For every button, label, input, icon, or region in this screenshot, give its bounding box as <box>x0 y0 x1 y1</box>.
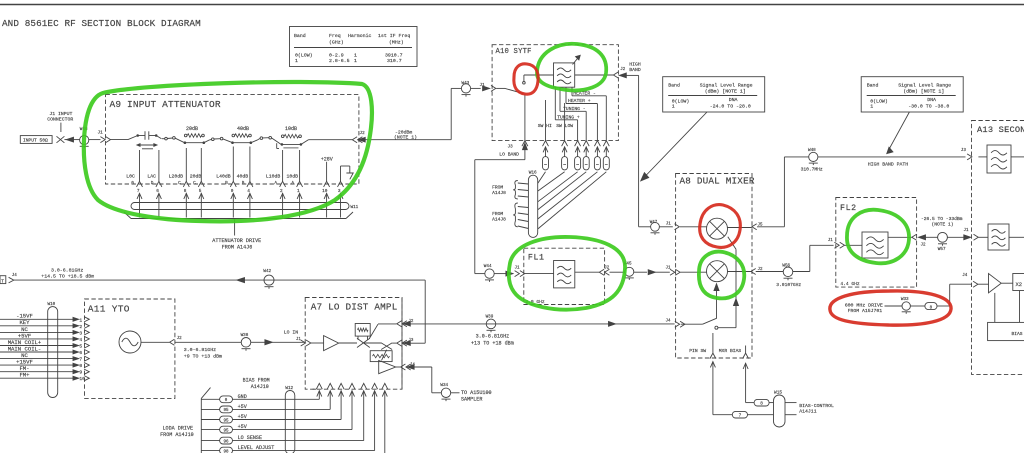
LODA drive label <box>160 426 194 439</box>
LO output label <box>41 267 94 279</box>
wire W57 to A13 J1 <box>947 229 970 240</box>
from A14J8 wires (lower) <box>518 207 529 229</box>
M2 LO feed <box>714 284 719 318</box>
IF freq label 3.9107GHz <box>776 282 801 288</box>
YIG tuning arrow <box>573 55 581 64</box>
A13 high band filter <box>978 145 1024 173</box>
A9 10dB actuator <box>277 143 299 148</box>
A9 40dB pad <box>231 126 252 144</box>
A9 port J1 <box>98 131 111 143</box>
svg-text:J4: J4 <box>962 274 968 278</box>
svg-text:A14J8: A14J8 <box>492 190 506 196</box>
A9 control labels <box>126 173 298 179</box>
svg-text:J1: J1 <box>964 229 970 233</box>
connector mate X <box>57 136 65 143</box>
svg-text:1: 1 <box>79 317 82 323</box>
FL1 block box <box>524 248 605 304</box>
svg-text:J2: J2 <box>360 131 366 136</box>
svg-text:1: 1 <box>354 58 357 64</box>
MXR BIAS drive wire <box>743 363 754 402</box>
svg-text:HIGH: HIGH <box>629 62 641 68</box>
cable W38 <box>241 333 251 351</box>
svg-text:FM+: FM+ <box>19 372 30 379</box>
FL2 title <box>840 204 857 213</box>
cable W39 <box>486 314 496 332</box>
wire YTO to J2 <box>141 341 169 343</box>
svg-text:0(LOW): 0(LOW) <box>295 53 313 59</box>
svg-text:6: 6 <box>79 350 82 356</box>
svg-text:J3: J3 <box>508 145 514 150</box>
svg-text:Band: Band <box>668 83 680 89</box>
svg-text:A: A <box>274 181 277 186</box>
A8 title <box>680 176 755 187</box>
svg-text:20dB: 20dB <box>186 126 198 132</box>
wire input to W46 <box>64 137 79 142</box>
wire W33 to pin <box>910 305 925 307</box>
wire splitter2 to amp2 <box>382 350 387 361</box>
wire W34 to sampler <box>451 392 460 394</box>
mixer M2 (low band) <box>707 261 728 282</box>
svg-text:+28V: +28V <box>321 156 333 162</box>
from A14J8 wires (upper) <box>518 183 529 197</box>
svg-text:SW LOW: SW LOW <box>556 123 573 129</box>
A8 port J1 (low band) <box>666 267 681 276</box>
svg-text:FL2: FL2 <box>840 204 857 213</box>
svg-text:A8 DUAL MIXER: A8 DUAL MIXER <box>680 176 755 187</box>
annotation: green circle around mixer M2 <box>699 252 744 299</box>
svg-text:W34: W34 <box>440 383 448 388</box>
wire amp2 to J4 <box>396 366 401 368</box>
A8 port J5 <box>752 223 763 230</box>
svg-text:W56: W56 <box>782 263 790 268</box>
svg-text:W11: W11 <box>351 205 359 210</box>
svg-text:3.0-6.81GHz: 3.0-6.81GHz <box>476 334 510 340</box>
cable W43 <box>461 81 470 97</box>
wire J2 to W57 <box>926 236 938 238</box>
wire splitter1 to J2 <box>369 324 396 339</box>
LODA drive distribution <box>201 394 274 453</box>
input connector label <box>47 111 73 132</box>
pin 8 connector (600MHz) <box>925 303 937 311</box>
wire high band to mixer <box>626 75 651 226</box>
600 MHz drive label <box>845 303 883 314</box>
svg-text:BIAS: BIAS <box>1012 331 1023 337</box>
cable W42 <box>263 269 274 289</box>
svg-text:FROM A14J10: FROM A14J10 <box>160 432 194 438</box>
svg-text:L40dB: L40dB <box>216 173 231 179</box>
A10 block box <box>492 45 618 141</box>
border rule top <box>0 4 1024 6</box>
wire amp1 to splitter1 <box>339 342 357 344</box>
A9 interstage contacts 3 <box>258 136 282 144</box>
A8 port J4 (LO in) <box>666 320 685 328</box>
front panel LO output stub <box>0 276 6 285</box>
FL1 port J1 <box>515 267 525 277</box>
wire 600MHz to W33 <box>885 305 903 307</box>
svg-text:20dB: 20dB <box>190 173 202 179</box>
wire M1 to J5 <box>728 227 752 229</box>
wire J5 to W48 <box>757 157 809 227</box>
svg-text:TUNING +: TUNING + <box>557 115 580 121</box>
wire W43 to A10 <box>471 83 490 91</box>
svg-text:1: 1 <box>354 53 357 59</box>
svg-text:(dBm) [NOTE 1]: (dBm) [NOTE 1] <box>705 89 746 95</box>
svg-text:C: C <box>178 181 181 186</box>
A10 bottom pin chevrons <box>522 141 609 147</box>
svg-text:A7 LO DIST AMPL: A7 LO DIST AMPL <box>311 302 398 313</box>
wire amp to X2 <box>1001 282 1013 284</box>
A9 block box <box>106 95 359 184</box>
svg-text:W42: W42 <box>263 269 271 274</box>
attenuator drive label <box>212 219 261 251</box>
svg-text:(GHz): (GHz) <box>329 40 344 46</box>
svg-text:LAC: LAC <box>147 173 156 179</box>
A7 port J2 <box>397 320 414 327</box>
svg-text:A: A <box>291 181 294 186</box>
bias feed wires <box>995 291 1020 323</box>
A9 interstage contacts 1 <box>162 137 185 143</box>
amplifier U1 <box>324 336 339 351</box>
A9 control lines <box>140 147 300 182</box>
A11 supply pins <box>0 313 89 383</box>
svg-text:J1: J1 <box>828 239 834 243</box>
A9 pin chevrons and numbers <box>131 181 343 194</box>
svg-text:0-2.9: 0-2.9 <box>329 53 344 59</box>
ribbon cable W12 <box>285 386 295 453</box>
A10 YIG filter FL <box>554 63 575 87</box>
svg-text:2.8-6.5: 2.8-6.5 <box>329 58 350 64</box>
svg-text:LO SENSE: LO SENSE <box>238 435 262 441</box>
FL1 low-pass filter <box>525 261 575 288</box>
svg-text:8: 8 <box>760 402 763 407</box>
svg-text:AND 8561EC RF SECTION BLOCK DI: AND 8561EC RF SECTION BLOCK DIAGRAM <box>2 18 201 29</box>
wire splitter2 to J3 <box>392 342 396 344</box>
A7 port J4 <box>401 363 416 370</box>
svg-text:Harmonic: Harmonic <box>348 33 372 39</box>
svg-text:W39: W39 <box>486 314 494 319</box>
svg-text:ATTENUATOR DRIVE: ATTENUATOR DRIVE <box>212 238 261 244</box>
svg-text:DNA: DNA <box>927 97 936 103</box>
A10 port J3 / LO BAND <box>499 143 527 160</box>
svg-text:(NOTE 1): (NOTE 1) <box>394 135 417 141</box>
svg-text:0: 0 <box>131 181 134 186</box>
svg-text:+14.5 TO +18.5 dBm: +14.5 TO +18.5 dBm <box>41 273 94 279</box>
wire pin7 to W15 <box>748 414 774 416</box>
svg-text:B: B <box>242 181 245 186</box>
wire J1 to M2 <box>680 271 706 273</box>
svg-text:Band: Band <box>294 33 306 39</box>
A11 title <box>88 304 130 315</box>
wire LO BAND to FL1 <box>475 160 525 274</box>
A9 port J2 <box>352 131 365 143</box>
FL2 cutoff label <box>840 281 860 287</box>
A7 title <box>311 302 398 313</box>
svg-text:J2: J2 <box>604 266 610 270</box>
wire W42 run <box>14 280 425 343</box>
svg-text:W48: W48 <box>808 148 816 153</box>
A9 drive arrows from W11 <box>137 193 343 217</box>
LO band switch <box>681 318 718 329</box>
A13 title <box>977 125 1024 135</box>
svg-text:FROM: FROM <box>492 211 503 217</box>
wire filter to J2 <box>888 236 912 238</box>
svg-text:FROM A15J701: FROM A15J701 <box>848 308 883 314</box>
svg-text:J1: J1 <box>98 131 104 136</box>
A10 heater and tuning lines <box>555 87 606 140</box>
note -20dBm <box>394 129 417 140</box>
wire A9 J2 to A10 J1 <box>365 88 461 139</box>
A9 drive connector housing <box>124 212 353 219</box>
svg-text:BIAS FROM: BIAS FROM <box>243 378 270 384</box>
annotation: red loop around 600MHz drive <box>830 291 951 325</box>
A10 band switch <box>496 75 553 140</box>
FL1 title <box>528 253 545 262</box>
svg-text:310.7MHz: 310.7MHz <box>801 167 823 173</box>
A9 20dB pad <box>184 126 206 144</box>
A8 bottom pin chevrons <box>710 353 749 359</box>
wire FL2 J1 to filter <box>845 244 862 246</box>
svg-text:W16: W16 <box>529 171 537 176</box>
svg-text:HEATER +: HEATER + <box>568 98 591 104</box>
svg-text:HIGH BAND PATH: HIGH BAND PATH <box>868 161 908 167</box>
table: signal level range (low band mixer) <box>663 77 765 112</box>
wire J1 to amp1 <box>311 342 324 344</box>
sampler label <box>461 390 492 402</box>
svg-text:FROM: FROM <box>492 185 503 191</box>
svg-text:W57: W57 <box>938 247 946 252</box>
W39 direction arrow <box>609 322 616 327</box>
A13 block box <box>972 121 1024 375</box>
svg-text:L0C: L0C <box>126 173 135 179</box>
svg-text:95: 95 <box>223 409 229 413</box>
A10 control pin connectors <box>543 147 610 170</box>
svg-text:J2: J2 <box>177 337 183 341</box>
svg-text:-20dBm: -20dBm <box>395 129 412 135</box>
wire A7 J2 to A8 J4 <box>410 323 674 325</box>
wire FL1 to W45 <box>610 271 625 273</box>
svg-text:BIAS-CONTROL: BIAS-CONTROL <box>799 403 834 409</box>
A10 port J1 <box>491 85 496 91</box>
svg-text:A14J10: A14J10 <box>251 384 269 390</box>
svg-text:J1: J1 <box>666 267 672 271</box>
svg-text:J1: J1 <box>515 267 521 271</box>
svg-text:1: 1 <box>295 58 298 64</box>
M1 LO feed <box>718 237 739 328</box>
A10 title <box>496 48 532 56</box>
X2 multiplier <box>1013 274 1024 291</box>
table: band / freq / harmonic / 1st IF freq <box>290 27 418 67</box>
A9 DC block actuator <box>137 144 157 149</box>
svg-text:J1: J1 <box>666 223 671 227</box>
wire J4 to amp <box>978 283 988 285</box>
A10 switch drive lines <box>538 100 574 140</box>
bias-control label <box>799 403 834 415</box>
wire W48 to A13 J3 high band path <box>818 157 966 167</box>
A7 port J1b <box>296 338 311 346</box>
wire FL1 to J2 <box>575 271 599 273</box>
svg-text:Signal Level Range: Signal Level Range <box>700 83 753 89</box>
IF freq label 310.7MHz <box>801 167 823 173</box>
ribbon cable W10 <box>48 302 58 398</box>
callout arrow to high band path <box>887 112 910 154</box>
A9 chassis ground <box>341 166 354 181</box>
svg-text:SAMPLER: SAMPLER <box>461 396 482 402</box>
A11 block box <box>85 299 175 398</box>
svg-text:+13 TO +18 dBm: +13 TO +18 dBm <box>471 341 514 347</box>
svg-text:Signal Level Range: Signal Level Range <box>898 83 951 89</box>
A9 title <box>110 99 221 110</box>
svg-text:9: 9 <box>79 370 82 376</box>
svg-text:J4: J4 <box>666 320 672 324</box>
FL2 port J1 <box>828 239 845 248</box>
FL1 cutoff label <box>525 299 545 305</box>
svg-text:W47: W47 <box>650 221 658 225</box>
PIN SW drive wire <box>710 362 732 415</box>
svg-text:FL1: FL1 <box>528 253 545 262</box>
svg-text:(NOTE 1): (NOTE 1) <box>932 222 954 228</box>
svg-text:LEVEL ADJUST: LEVEL ADJUST <box>238 445 275 451</box>
svg-text:A9 INPUT ATTENUATOR: A9 INPUT ATTENUATOR <box>110 99 221 110</box>
wire pin to A13 J4 <box>937 274 972 306</box>
svg-text:1st IF Freq: 1st IF Freq <box>378 33 410 39</box>
W42 direction arrow <box>237 278 245 283</box>
from A14J8 label (upper) <box>492 181 518 200</box>
second converter level label <box>921 216 963 227</box>
wire M2 to J2 <box>728 271 751 273</box>
wire W38 to A7 J1 <box>251 340 305 345</box>
cable W44 <box>484 264 494 282</box>
wire J4 to W34 <box>414 367 441 393</box>
annotation: green loop around A9 <box>84 82 372 221</box>
annotation: green circle around FL2 filter <box>847 210 909 264</box>
table: signal level range (second converter) <box>861 77 963 112</box>
PIN SW line <box>689 333 713 354</box>
svg-text:BAND: BAND <box>629 67 641 73</box>
svg-text:-30.0 TO -38.0: -30.0 TO -38.0 <box>908 104 949 110</box>
FL2 band-pass filter <box>862 232 888 258</box>
svg-text:FROM A14J6: FROM A14J6 <box>222 244 253 250</box>
svg-text:-26.5 TO -33dBm: -26.5 TO -33dBm <box>921 216 963 222</box>
A10 port J2 / high band <box>613 62 641 78</box>
svg-text:GND: GND <box>238 394 247 400</box>
svg-text:W15: W15 <box>774 389 782 395</box>
svg-text:+5V: +5V <box>238 404 248 410</box>
svg-text:3910.7: 3910.7 <box>385 53 403 59</box>
A13 port J3 <box>961 148 972 160</box>
title text <box>2 18 201 29</box>
cable W48 <box>808 148 818 165</box>
svg-text:DNA: DNA <box>729 97 738 103</box>
svg-text:W10: W10 <box>48 302 56 307</box>
cable W57 <box>938 232 948 252</box>
amplifier U2 <box>379 360 396 373</box>
svg-text:(dBm) [NOTE 1]: (dBm) [NOTE 1] <box>903 89 944 95</box>
svg-text:7: 7 <box>739 414 742 419</box>
A9 10dB output lever <box>301 140 352 145</box>
svg-text:95: 95 <box>223 429 229 433</box>
svg-text:(MHz): (MHz) <box>389 40 404 46</box>
cable W46 <box>80 127 89 148</box>
svg-text:A11 YTO: A11 YTO <box>88 304 130 315</box>
svg-text:40dB: 40dB <box>237 126 249 132</box>
A7 block box <box>305 298 402 390</box>
svg-text:PIN SW: PIN SW <box>689 348 706 354</box>
A7 port J3 <box>397 339 414 346</box>
svg-text:TO A15U100: TO A15U100 <box>461 390 492 396</box>
MXR BIAS line <box>719 346 746 354</box>
svg-text:L10dB: L10dB <box>266 173 281 179</box>
svg-text:J4: J4 <box>12 274 18 278</box>
svg-text:A13 SECOND C: A13 SECOND C <box>977 125 1024 135</box>
wire J2 to W56 <box>756 271 784 273</box>
svg-text:Band: Band <box>867 83 879 89</box>
svg-text:600 MHz DRIVE: 600 MHz DRIVE <box>845 303 883 309</box>
A9 10dB pad <box>281 126 303 146</box>
svg-text:-24.0 TO -28.0: -24.0 TO -28.0 <box>710 104 751 110</box>
svg-text:10dB: 10dB <box>285 126 297 132</box>
svg-text:C: C <box>193 181 196 186</box>
splitter 1 <box>355 324 370 348</box>
A11 port J2 <box>170 337 183 345</box>
from A14J8 label (lower) <box>492 203 518 227</box>
annotation: green loop around FL1 <box>509 237 625 310</box>
svg-text:5: 5 <box>79 344 82 350</box>
svg-text:J1: J1 <box>296 338 302 342</box>
FL2 port J2 <box>912 234 926 247</box>
splitter 2 <box>370 343 392 362</box>
wire W46 to A9 J1 <box>89 139 101 141</box>
A9 DC block section <box>111 131 162 139</box>
A7 port J1 <box>301 340 306 346</box>
svg-text:310.7: 310.7 <box>387 58 402 64</box>
INPUT 50ohm box <box>20 136 52 144</box>
svg-text:J3: J3 <box>408 339 414 343</box>
A9 20dB output lever <box>204 140 210 143</box>
svg-text:W12: W12 <box>285 386 293 391</box>
wires W15 to bias control <box>785 403 797 415</box>
ribbon cable W16 <box>528 171 537 238</box>
pin 8 connector <box>754 399 769 406</box>
W16 fan-out wires <box>538 172 606 229</box>
svg-text:LODA DRIVE: LODA DRIVE <box>163 426 194 432</box>
wire splitter1 to splitter2 <box>364 342 382 344</box>
svg-text:TUNING -: TUNING - <box>563 106 586 112</box>
svg-text:10dB: 10dB <box>287 173 299 179</box>
wire J2 to W38 <box>175 341 242 343</box>
wire J1 to M1 <box>680 226 707 228</box>
A7 bias pins to W12 <box>233 383 388 453</box>
svg-text:A14J8: A14J8 <box>492 217 506 223</box>
svg-text:+5V: +5V <box>238 414 248 420</box>
svg-text:J2: J2 <box>620 68 626 72</box>
mixer M1 (high band) <box>707 218 728 239</box>
wire W56 to FL2 J1 <box>793 245 834 271</box>
svg-text:3.0-6.81GHz: 3.0-6.81GHz <box>184 347 216 353</box>
YTO output label <box>184 347 222 360</box>
A13 port J1 <box>974 234 979 240</box>
wire W47 to A8 <box>659 223 672 227</box>
svg-text:3: 3 <box>79 330 82 336</box>
svg-text:LO BAND: LO BAND <box>499 152 519 158</box>
svg-text:J2: J2 <box>408 320 414 324</box>
FL2 block box <box>836 198 917 288</box>
svg-text:W33: W33 <box>901 297 909 302</box>
cable W56 <box>782 263 792 280</box>
wire YTF to J2 <box>575 74 614 76</box>
LODA bundle <box>201 388 210 453</box>
svg-text:8: 8 <box>79 363 82 369</box>
svg-text:A10 SYTF: A10 SYTF <box>496 48 532 56</box>
